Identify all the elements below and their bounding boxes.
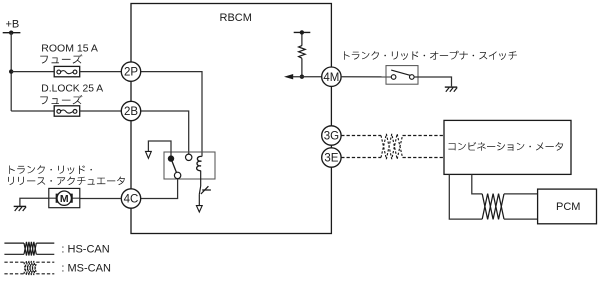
label trunk lid opener switch <box>344 51 517 60</box>
resistor (pull-up) <box>299 46 306 59</box>
RBCM module box <box>131 4 331 234</box>
label trunk lid release actuator line2 <box>8 177 125 186</box>
svg-text:: MS-CAN: : MS-CAN <box>61 263 111 275</box>
off-page arrow (open, down) <box>146 151 152 158</box>
svg-text:3E: 3E <box>324 153 338 165</box>
label combination meter <box>448 142 563 151</box>
wire D.LOCK fuse to pin 2B <box>80 110 122 112</box>
label fuse (katakana) <box>40 54 82 63</box>
wire coil to driver <box>200 171 202 186</box>
ground G1 (switch) <box>445 87 457 92</box>
pin 3E <box>322 148 341 167</box>
pull-up supply bar <box>294 30 311 34</box>
switch SW1 (trunk lid opener) box <box>386 66 418 85</box>
legend HS-CAN sample <box>4 242 24 244</box>
svg-text:2P: 2P <box>124 67 138 79</box>
relay switch common contact <box>168 155 174 161</box>
wire MS-CAN L to meter <box>403 157 445 159</box>
svg-text:D.LOCK 25 A: D.LOCK 25 A <box>41 84 103 95</box>
switch contacts <box>391 70 414 79</box>
svg-text:PCM: PCM <box>556 201 580 213</box>
wire relay contact to pin 4C <box>141 179 178 199</box>
label trunk lid release actuator line1 <box>9 165 92 174</box>
wire arrow to pin 4M <box>293 76 322 78</box>
wire switch to ground <box>414 77 451 86</box>
wire HS-CAN L meter to twist <box>449 174 482 219</box>
pin 2B <box>121 101 140 120</box>
fuse F2 D.LOCK 25A <box>54 106 79 116</box>
wire pin 4M to switch <box>341 76 391 78</box>
wire HS-CAN H to PCM <box>504 193 538 195</box>
wire pin 2B to relay contact <box>141 111 189 154</box>
relay normally-open contact <box>174 172 180 178</box>
wire pin 2P to relay coil <box>141 72 202 157</box>
wire +B vertical feed <box>10 33 12 111</box>
svg-text:3G: 3G <box>324 131 339 143</box>
wire MS-CAN L from 3E <box>341 157 381 159</box>
pin 4M <box>322 67 341 86</box>
wire MS-CAN H from 3G <box>341 135 381 137</box>
wire actuator to ground <box>20 198 49 206</box>
label fuse (katakana) <box>40 95 82 104</box>
svg-text:M: M <box>60 193 69 205</box>
svg-text:+B: +B <box>6 19 20 31</box>
wire pin 4C to actuator <box>80 198 122 200</box>
svg-text:: HS-CAN: : HS-CAN <box>61 244 109 256</box>
svg-text:2B: 2B <box>124 106 138 118</box>
svg-text:RBCM: RBCM <box>220 12 252 24</box>
legend MS-CAN sample <box>4 261 24 263</box>
twisted pair (MS-CAN) <box>381 134 403 159</box>
ground arrow (open, down) <box>196 206 202 212</box>
relay switch lever <box>171 159 178 176</box>
ground G2 (actuator) <box>14 206 26 211</box>
relay coil <box>197 156 202 170</box>
driver transistor symbol <box>199 186 211 194</box>
off-page arrow (filled, left) <box>284 74 293 79</box>
motor M1 (trunk lid release actuator) <box>49 188 80 207</box>
pin 3G <box>322 126 341 145</box>
svg-text:ROOM 15 A: ROOM 15 A <box>41 42 98 54</box>
combination meter box <box>444 120 571 174</box>
wire MS-CAN H to meter <box>403 135 445 137</box>
+B power symbol <box>3 19 21 35</box>
twisted pair (HS-CAN) <box>482 194 504 220</box>
junction dot at ROOM fuse branch <box>9 69 13 73</box>
junction dot 4M node <box>300 75 304 79</box>
wire +B to D.LOCK fuse <box>11 110 54 112</box>
wire resistor to 4M node <box>301 58 303 76</box>
pin 2P <box>121 62 140 81</box>
wire driver to ground arrow <box>198 194 200 205</box>
pin 4C <box>121 189 140 208</box>
relay fixed contact (top) <box>186 154 192 160</box>
wire bar to resistor <box>301 32 303 45</box>
wire +B to ROOM fuse <box>11 71 54 73</box>
wire HS-CAN H meter to twist <box>472 174 482 194</box>
fuse F1 ROOM 15A <box>54 66 79 76</box>
wire ROOM fuse to pin 2P <box>80 71 122 73</box>
wire relay common to off-page arrow <box>148 141 171 158</box>
PCM box <box>538 189 597 224</box>
wire HS-CAN L to PCM <box>504 218 538 220</box>
relay K1 (trunk lid release relay) <box>164 152 215 179</box>
svg-text:4M: 4M <box>323 72 339 84</box>
svg-text:4C: 4C <box>124 194 139 206</box>
